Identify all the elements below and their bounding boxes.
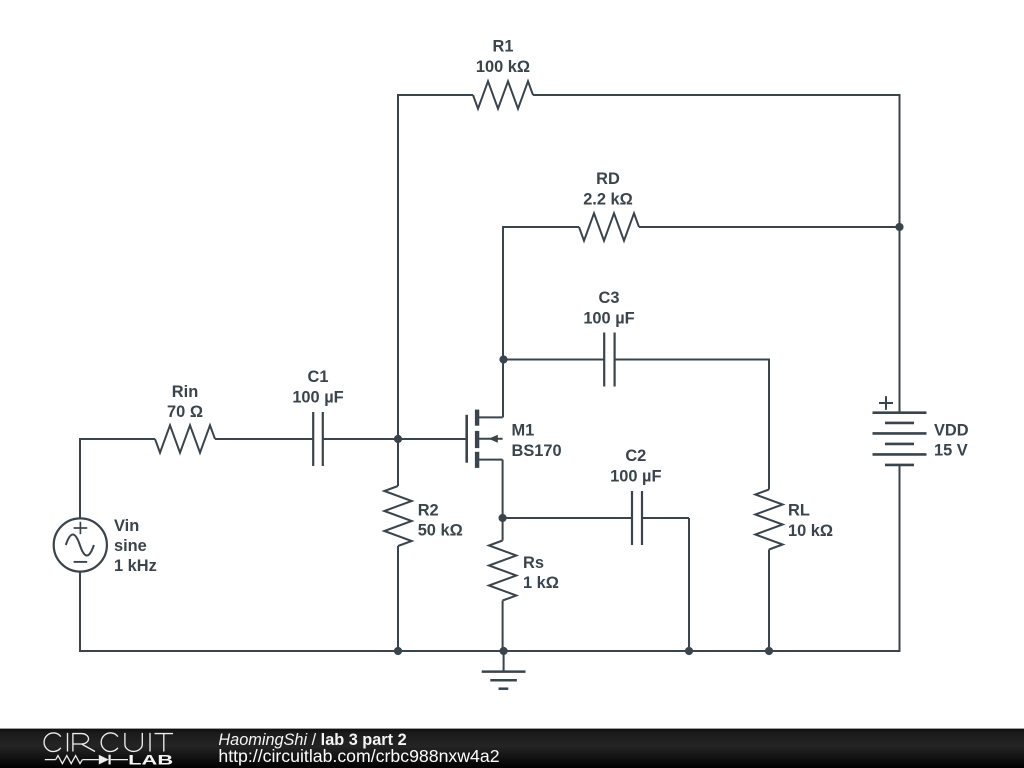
svg-text:http://circuitlab.com/crbc988n: http://circuitlab.com/crbc988nxw4a2 — [218, 746, 499, 766]
svg-text:Rs: Rs — [523, 554, 544, 572]
svg-text:50 kΩ: 50 kΩ — [418, 522, 463, 540]
svg-text:100 µF: 100 µF — [583, 310, 634, 328]
svg-text:C1: C1 — [308, 368, 329, 386]
svg-text:2.2 kΩ: 2.2 kΩ — [583, 191, 633, 209]
svg-text:1 kHz: 1 kHz — [114, 557, 157, 575]
svg-text:100 kΩ: 100 kΩ — [476, 58, 530, 76]
svg-text:15 V: 15 V — [934, 442, 968, 460]
svg-text:Vin: Vin — [114, 517, 139, 535]
svg-text:C3: C3 — [599, 289, 620, 307]
svg-text:sine: sine — [114, 537, 147, 555]
svg-text:LAB: LAB — [128, 751, 173, 767]
svg-text:RL: RL — [788, 502, 810, 520]
svg-text:R2: R2 — [418, 502, 439, 520]
svg-text:1 kΩ: 1 kΩ — [523, 574, 559, 592]
svg-text:C2: C2 — [625, 447, 646, 465]
svg-text:100 µF: 100 µF — [610, 468, 661, 486]
svg-text:70 Ω: 70 Ω — [167, 403, 203, 421]
svg-text:VDD: VDD — [934, 422, 969, 440]
svg-text:100 µF: 100 µF — [292, 389, 343, 407]
svg-text:R1: R1 — [493, 38, 514, 56]
svg-text:10 kΩ: 10 kΩ — [788, 522, 833, 540]
svg-text:Rin: Rin — [172, 383, 198, 401]
svg-text:M1: M1 — [512, 422, 535, 440]
svg-text:RD: RD — [596, 170, 620, 188]
svg-text:BS170: BS170 — [512, 442, 562, 460]
